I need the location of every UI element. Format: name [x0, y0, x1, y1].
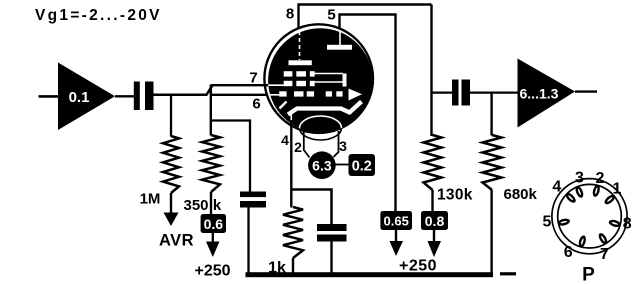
wire heater leg pin3: [334, 131, 339, 157]
tube V1 cathode band: [288, 102, 362, 115]
capacitor C3 cathode bypass: [317, 224, 347, 242]
capacitor C2: [240, 192, 266, 208]
svg-text:Vg1=-2...-20V: Vg1=-2...-20V: [35, 7, 162, 24]
wire cathode branch to C3: [291, 190, 331, 225]
wire 1M branch: [170, 96, 172, 137]
svg-text:3: 3: [575, 170, 584, 187]
svg-text:0.2: 0.2: [352, 159, 372, 175]
tube V1 grid A connector: [315, 73, 343, 75]
socket P pin slot 3: [574, 185, 585, 199]
svg-text:6.3: 6.3: [312, 158, 332, 174]
resistor R3 1k: [283, 207, 303, 258]
socket P outer circle: [552, 179, 627, 254]
svg-text:+250: +250: [194, 263, 230, 280]
resistor R1 1M: [163, 136, 179, 193]
tube V1 connector plate: [343, 74, 347, 87]
svg-text:8: 8: [623, 216, 632, 233]
arrow to +250 left: [206, 233, 220, 257]
svg-text:6: 6: [252, 96, 260, 113]
wire grid node to C2: [211, 121, 250, 192]
socket P inner circle: [558, 184, 622, 248]
wire C4 to A2: [470, 91, 518, 93]
socket P pin slot 2: [592, 184, 602, 198]
socket P pin slot 5: [557, 217, 571, 226]
svg-text:0.1: 0.1: [69, 89, 90, 106]
svg-text:680k: 680k: [504, 186, 538, 203]
svg-text:7: 7: [600, 246, 609, 263]
svg-text:3: 3: [339, 138, 347, 154]
socket P pin slot 6: [577, 235, 587, 249]
svg-text:6...1.3: 6...1.3: [520, 86, 559, 102]
current box 0.8: [421, 211, 448, 230]
ground bus: [246, 272, 494, 277]
amplifier A2 level 6...1.3: [518, 59, 576, 128]
svg-text:4: 4: [552, 179, 561, 196]
arrow to AVR: [164, 193, 179, 226]
svg-text:5: 5: [542, 214, 551, 231]
resistor R4 130k: [424, 135, 442, 190]
wire 350k stub: [210, 85, 212, 136]
socket P pin slot 1: [603, 193, 617, 206]
wire R5 to bus: [490, 190, 492, 275]
resistor R2 350k: [202, 135, 220, 192]
capacitor C1 input coupling: [134, 82, 154, 111]
current box 0.2: [349, 154, 376, 176]
heater supply circle 6.3: [308, 151, 336, 179]
svg-text:0.8: 0.8: [425, 213, 445, 229]
wire anode rail down: [430, 5, 432, 137]
tube V1 anode bar (pin5): [327, 45, 352, 50]
wire C1 to grid node: [154, 85, 213, 95]
tube V1 grid C arrowhead: [349, 89, 363, 101]
svg-text:P: P: [582, 265, 595, 284]
tube V1 cathode to pin4 lead: [290, 112, 292, 124]
wire pin7 line: [211, 84, 268, 86]
svg-text:1M: 1M: [140, 191, 161, 208]
wire R2 to box: [210, 192, 212, 214]
wire heater leg pin2: [304, 131, 310, 158]
svg-text:4: 4: [281, 132, 289, 148]
svg-text:130k: 130k: [437, 187, 473, 204]
ground bus stray dash: [500, 272, 516, 275]
tube V1 envelope: [264, 24, 373, 133]
svg-text:350: 350: [183, 197, 208, 214]
wire R4 to box: [431, 190, 433, 211]
svg-text:AVR: AVR: [159, 232, 194, 250]
socket P pin slot 4: [564, 191, 577, 204]
svg-text:1: 1: [613, 181, 622, 198]
wire pin6 line: [212, 94, 268, 96]
svg-text:k: k: [213, 197, 222, 214]
amplifier A1 level 0.1: [58, 63, 115, 131]
wire pin8 to anode rail: [299, 5, 432, 30]
arrow 0.65 to +250: [390, 230, 404, 256]
arrow 0.8 to +250: [428, 230, 442, 257]
wire heater circle to 0.2 box: [336, 164, 349, 166]
wire C2 to bus: [247, 208, 249, 276]
svg-text:0.6: 0.6: [204, 216, 224, 232]
tube V1 pin8 internal lead: [299, 31, 301, 60]
wire output: [575, 90, 597, 92]
tube V1 grid row B: [284, 81, 315, 86]
svg-text:8: 8: [286, 6, 294, 23]
svg-text:2: 2: [596, 170, 605, 187]
svg-text:6: 6: [564, 244, 573, 261]
wire pin4 cathode lead: [290, 120, 292, 208]
wire C3 to bus: [330, 242, 332, 276]
tube V1 grid row C: [279, 91, 342, 96]
tube V1 grid row A: [284, 71, 315, 76]
socket P pin slot 8: [608, 219, 622, 229]
heater filament arch: [300, 116, 342, 140]
wire A1 output to C1: [115, 95, 135, 97]
svg-text:5: 5: [327, 7, 335, 24]
wire pin5 to screen rail: [340, 15, 396, 212]
current box 0.6: [201, 214, 226, 233]
current box 0.65: [380, 211, 412, 230]
wire 680k stub: [490, 93, 492, 136]
svg-text:+250: +250: [399, 258, 437, 275]
svg-text:2: 2: [294, 139, 302, 155]
tube V1 grid B connector: [315, 81, 343, 83]
socket P pin slot 7: [597, 232, 609, 246]
tube V1 cathode left tick: [280, 102, 287, 109]
wire R3 to bus: [292, 258, 294, 275]
tube V1 plate bar (pin8): [289, 60, 312, 65]
tube V1 pin5 internal lead: [339, 30, 341, 45]
wire input: [39, 95, 59, 98]
svg-text:0.65: 0.65: [384, 214, 409, 229]
resistor R5 680k: [483, 135, 502, 190]
capacitor C4 output coupling: [452, 80, 470, 106]
wire anode to C4: [432, 91, 453, 93]
tube V1 pin7 internal lead: [269, 84, 285, 86]
tube V1 pin6 internal lead: [269, 94, 280, 96]
svg-text:7: 7: [249, 70, 257, 87]
